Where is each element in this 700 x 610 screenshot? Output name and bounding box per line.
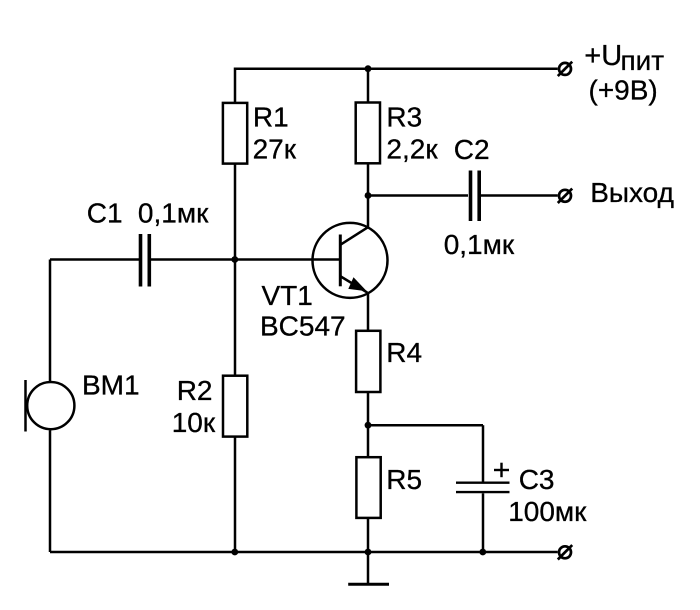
svg-text:0,1мк: 0,1мк — [138, 198, 209, 229]
svg-text:C1: C1 — [87, 198, 123, 229]
svg-text:10к: 10к — [172, 407, 216, 438]
svg-text:27к: 27к — [253, 133, 297, 164]
svg-text:Выход: Выход — [590, 177, 674, 208]
svg-text:R1: R1 — [253, 102, 289, 133]
svg-text:R2: R2 — [177, 375, 213, 406]
svg-text:BC547: BC547 — [260, 311, 346, 342]
svg-text:VT1: VT1 — [262, 280, 313, 311]
svg-text:0,1мк: 0,1мк — [444, 229, 515, 260]
svg-text:100мк: 100мк — [508, 496, 587, 527]
svg-text:пит: пит — [621, 45, 665, 76]
svg-text:C2: C2 — [454, 134, 490, 165]
svg-text:BM1: BM1 — [82, 369, 140, 400]
svg-text:2,2к: 2,2к — [386, 134, 438, 165]
svg-text:+U: +U — [584, 40, 622, 72]
svg-text:(+9В): (+9В) — [589, 74, 658, 105]
svg-text:R4: R4 — [386, 337, 422, 368]
svg-text:C3: C3 — [519, 464, 555, 495]
svg-text:R5: R5 — [386, 464, 422, 495]
svg-text:R3: R3 — [386, 102, 422, 133]
